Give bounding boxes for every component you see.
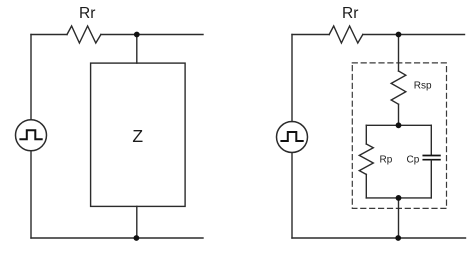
wire: Cp branch upper lead — [430, 125, 432, 155]
wire: left circuit top rail — [31, 34, 203, 36]
wire: Z box bottom to bottom rail — [136, 206, 138, 238]
wire: junction to Z box top — [136, 35, 138, 64]
pulse waveform symbol (right source) — [281, 132, 302, 141]
svg-text:Rp: Rp — [380, 154, 393, 165]
wire: Rp branch upper lead — [365, 125, 367, 144]
wire: parallel network bottom rail — [366, 197, 431, 199]
resistor Rp — [359, 144, 373, 174]
voltage source V1 (pulse source, left) — [16, 120, 47, 151]
svg-text:Rr: Rr — [342, 5, 358, 22]
resistor Rsp — [391, 71, 406, 104]
node: right top junction — [396, 32, 402, 38]
wire: parallel network top rail — [366, 124, 431, 126]
node: parallel bottom junction — [396, 195, 402, 201]
wire: junction down to Rsp — [398, 35, 400, 72]
svg-text:Rsp: Rsp — [414, 80, 432, 91]
wire: Rsp bottom to parallel network top — [398, 104, 400, 125]
wire: Cp branch lower lead — [430, 160, 432, 198]
wire: right circuit left vertical — [291, 35, 293, 239]
voltage source V2 (pulse source, right) — [277, 122, 308, 153]
node: Rsp-parallel junction — [396, 122, 402, 128]
node: right bottom junction — [395, 235, 401, 241]
svg-text:Cp: Cp — [407, 154, 420, 165]
impedance Z box — [91, 63, 186, 206]
wire: right circuit top rail — [292, 34, 465, 36]
wire: left circuit bottom rail — [31, 237, 203, 239]
capacitor Cp — [423, 156, 440, 160]
wire: Rp branch lower lead — [365, 174, 367, 198]
resistor Rr (right) — [329, 26, 363, 43]
wire: parallel network to bottom rail — [398, 198, 400, 238]
pulse waveform symbol (left source) — [20, 130, 41, 139]
node: left top junction — [134, 32, 140, 38]
wire: right circuit bottom rail — [292, 237, 466, 239]
wire: left circuit left vertical — [30, 35, 32, 239]
dashed box: probe equivalent model boundary — [352, 63, 446, 209]
svg-text:Rr: Rr — [79, 5, 95, 22]
resistor Rr (left) — [67, 26, 101, 43]
svg-text:Z: Z — [132, 126, 143, 146]
node: left bottom junction — [134, 235, 140, 241]
